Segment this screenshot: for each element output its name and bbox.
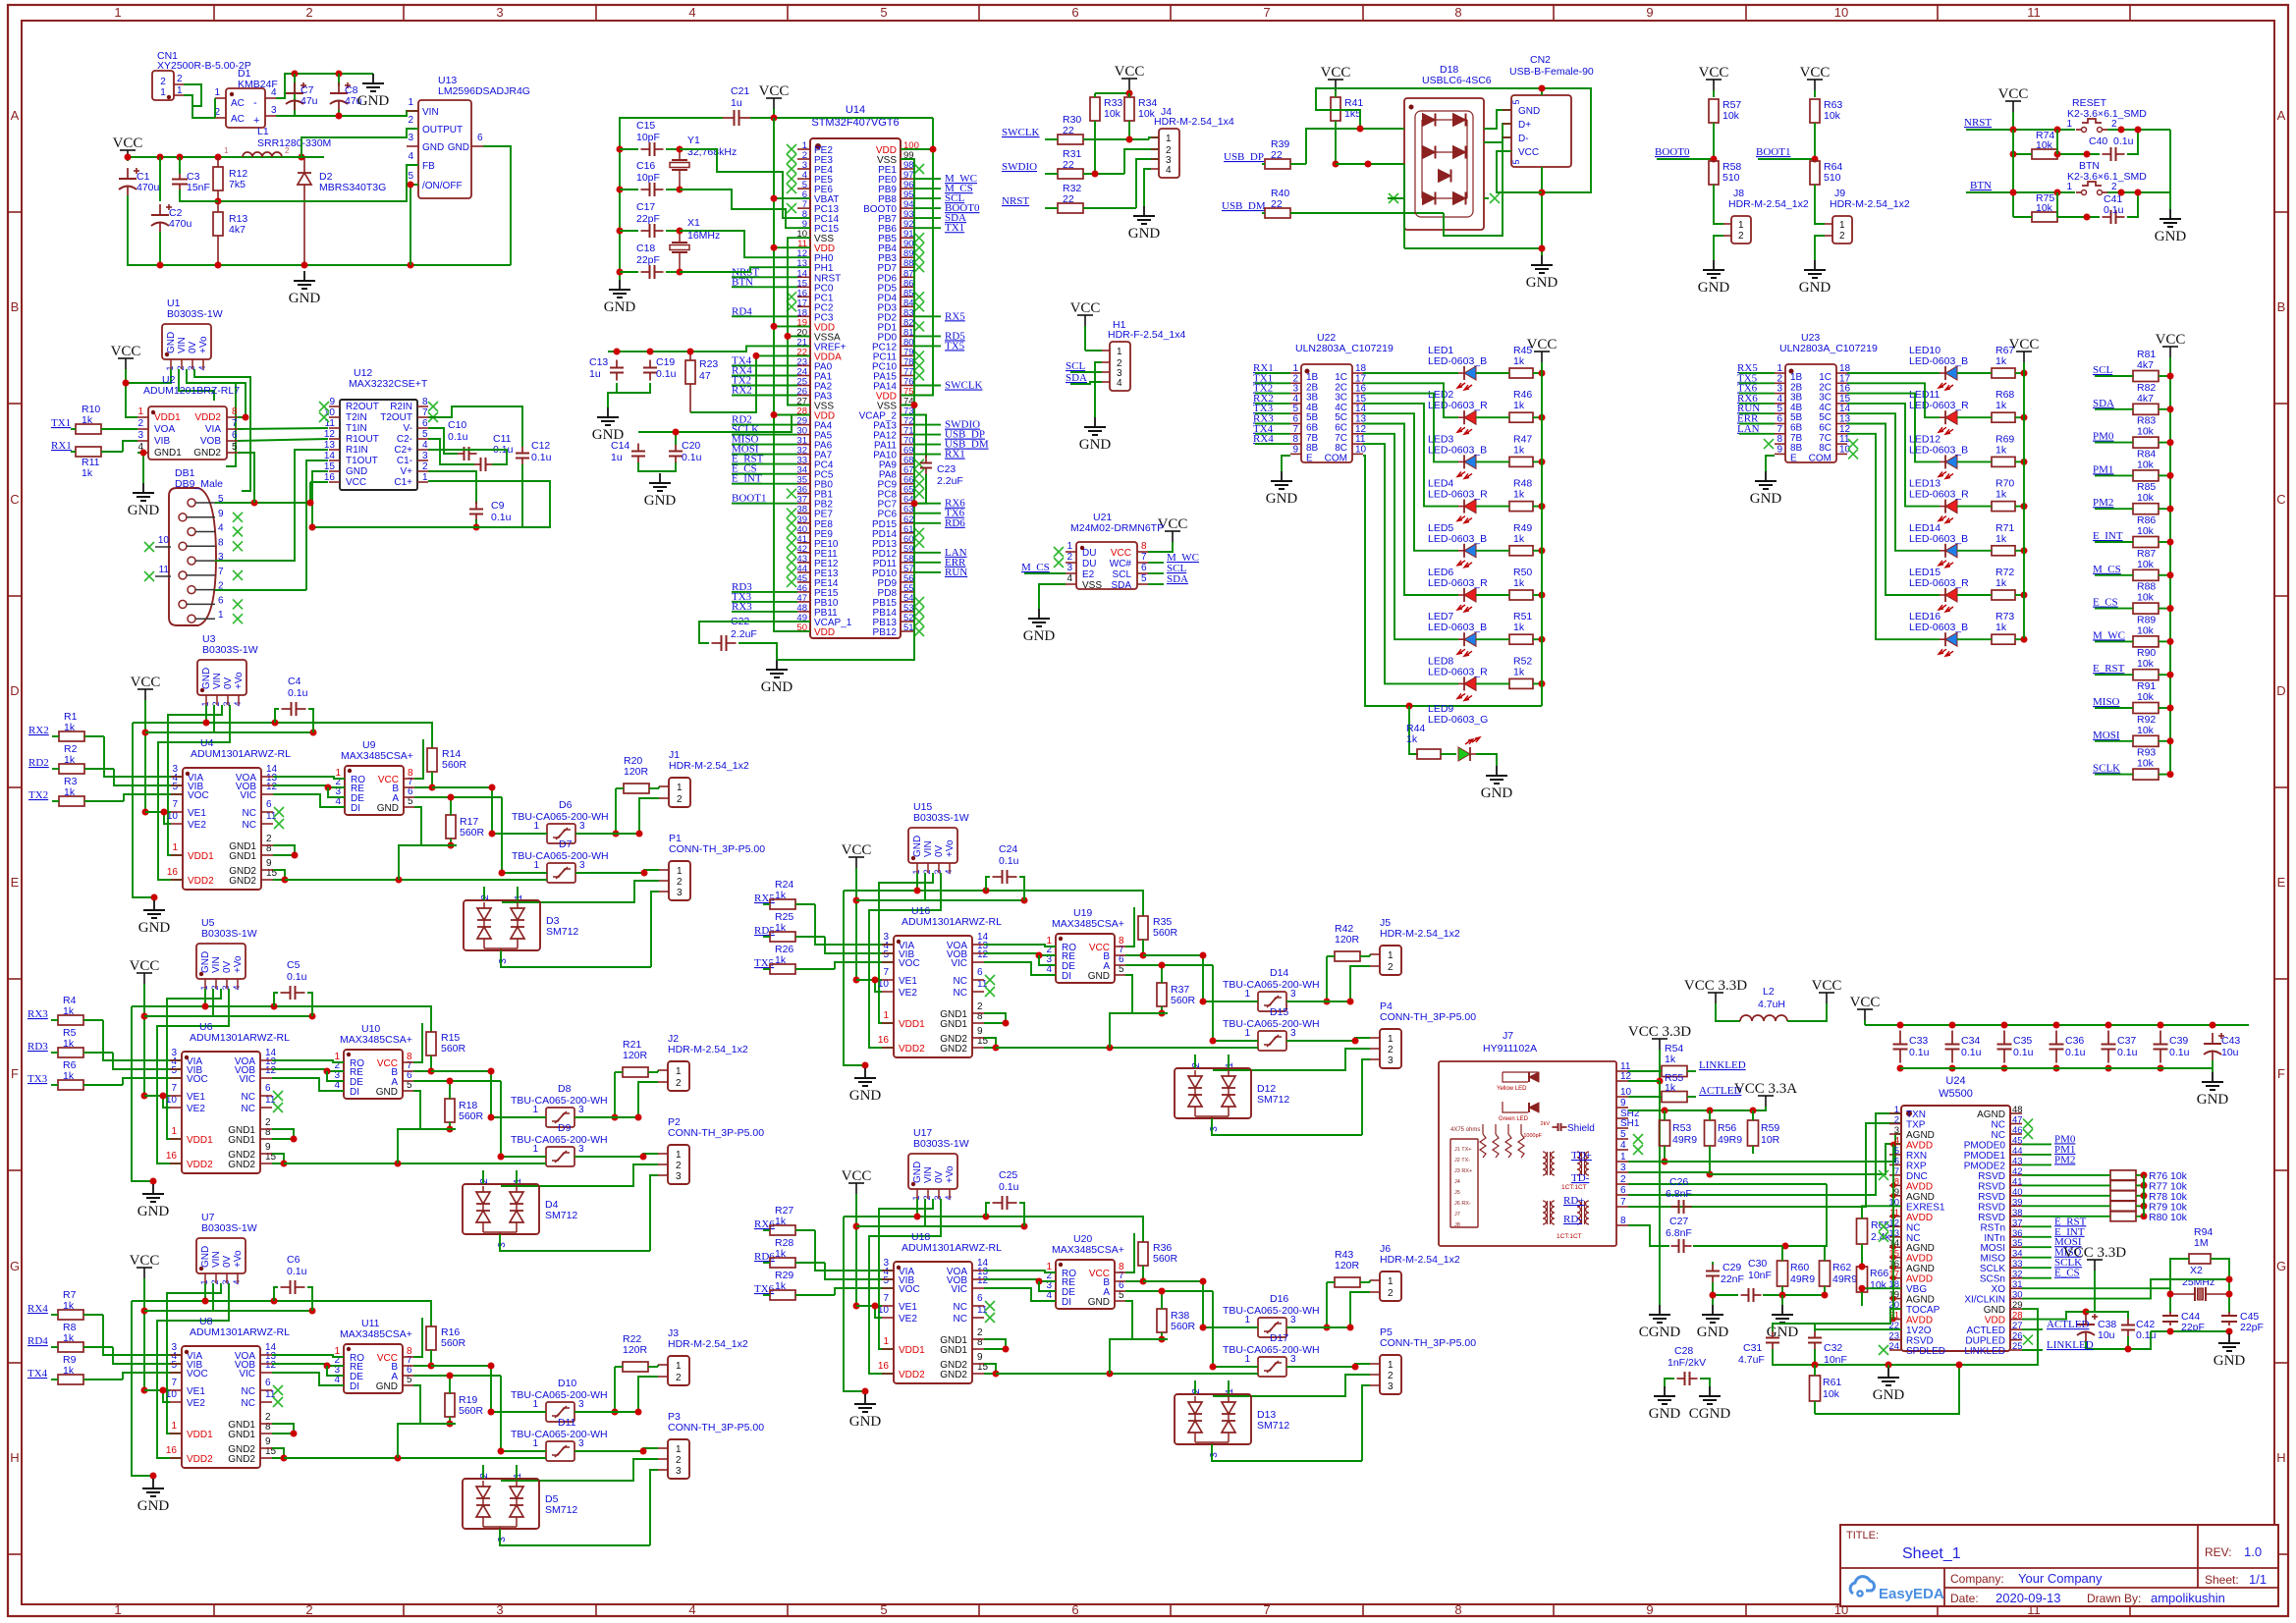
- svg-text:VCC: VCC: [1850, 995, 1881, 1010]
- wire: [1628, 1107, 1766, 1110]
- resistor R16: [426, 1326, 466, 1366]
- svg-text:1k: 1k: [82, 467, 93, 479]
- connector DB1: [169, 467, 223, 625]
- svg-text:39: 39: [2012, 1197, 2023, 1208]
- svg-text:ACTLED: ACTLED: [2047, 1319, 2089, 1330]
- svg-text:22: 22: [1271, 198, 1283, 210]
- svg-text:GND: GND: [604, 299, 636, 315]
- svg-text:B: B: [2277, 299, 2286, 314]
- junction: [1200, 952, 1207, 959]
- svg-text:22pF: 22pF: [2240, 1322, 2264, 1333]
- svg-text:GND: GND: [377, 803, 399, 814]
- svg-text:1: 1: [1388, 1276, 1394, 1287]
- svg-text:RSVD: RSVD: [1978, 1181, 2005, 1192]
- svg-text:USB_DP: USB_DP: [1224, 151, 1264, 163]
- svg-text:0.1u: 0.1u: [999, 855, 1019, 867]
- junction: [1021, 897, 1028, 904]
- junction: [1333, 161, 1339, 168]
- svg-text:GND: GND: [137, 1204, 170, 1219]
- junction: [161, 809, 168, 816]
- junction: [635, 1409, 642, 1416]
- power flag VCC: [2156, 332, 2186, 357]
- junction: [215, 262, 222, 269]
- svg-text:FB: FB: [422, 161, 435, 172]
- wire: [327, 1071, 344, 1081]
- connector J4: [1151, 106, 1234, 178]
- wire: [856, 1225, 1024, 1227]
- junction: [1707, 1108, 1714, 1114]
- svg-text:6: 6: [265, 1083, 271, 1094]
- svg-text:GND: GND: [376, 1087, 398, 1098]
- ground: [604, 280, 636, 315]
- svg-text:1k: 1k: [1406, 733, 1418, 745]
- svg-text:3: 3: [1388, 1055, 1394, 1066]
- wire: [128, 195, 511, 265]
- wire: [1739, 372, 1775, 374]
- svg-text:C35: C35: [2013, 1035, 2032, 1047]
- svg-text:4: 4: [271, 87, 277, 98]
- svg-text:GND: GND: [1088, 1297, 1110, 1308]
- wire: [276, 74, 295, 116]
- switch BTN: [2066, 160, 2147, 195]
- junction: [447, 1126, 454, 1133]
- junction: [785, 333, 792, 340]
- wire: [132, 1301, 153, 1476]
- svg-text:1k: 1k: [63, 1365, 75, 1377]
- no-connect: [1764, 439, 1774, 449]
- wire: [2056, 192, 2058, 217]
- wire: [143, 1278, 145, 1390]
- wire: [1255, 423, 1290, 425]
- wire: [2056, 130, 2058, 154]
- svg-text:MAX3232CSE+T: MAX3232CSE+T: [349, 378, 428, 390]
- switch RESET: [2066, 97, 2147, 133]
- wire: [1194, 1380, 1196, 1394]
- svg-text:VDD2: VDD2: [187, 1454, 213, 1465]
- wire: [615, 788, 617, 834]
- wire: [432, 787, 492, 834]
- svg-text:0.1u: 0.1u: [999, 1181, 1019, 1193]
- svg-text:Date:: Date:: [1950, 1592, 1979, 1605]
- svg-text:0.1u: 0.1u: [1909, 1047, 1930, 1058]
- wire: [501, 1450, 546, 1452]
- svg-text:SWCLK: SWCLK: [945, 380, 983, 392]
- svg-text:7: 7: [171, 1083, 177, 1094]
- svg-text:22pF: 22pF: [636, 254, 660, 266]
- svg-text:49R9: 49R9: [1718, 1134, 1742, 1146]
- wire: [1362, 1385, 1370, 1406]
- svg-text:12: 12: [977, 949, 989, 960]
- svg-text:T2IN: T2IN: [346, 412, 367, 423]
- svg-text:VE2: VE2: [899, 1314, 917, 1325]
- svg-text:TXP: TXP: [1906, 1120, 1926, 1131]
- wire: [660, 462, 676, 471]
- svg-text:VCC: VCC: [842, 842, 872, 858]
- svg-text:3: 3: [1290, 1028, 1296, 1039]
- wire: [1125, 964, 1213, 966]
- svg-text:12: 12: [265, 1360, 277, 1371]
- eeprom U21: [1066, 512, 1164, 591]
- svg-text:U14: U14: [846, 104, 865, 116]
- wire: [398, 1129, 456, 1163]
- wire: [1336, 163, 1404, 165]
- wire: [126, 369, 171, 383]
- capacitor C33: [1893, 1031, 1930, 1063]
- svg-text:C9: C9: [491, 500, 505, 512]
- wire: [844, 1217, 1143, 1242]
- junction: [429, 784, 436, 791]
- svg-text:V-: V-: [404, 423, 412, 434]
- svg-text:1: 1: [676, 1444, 682, 1455]
- svg-text:4k7: 4k7: [229, 224, 246, 236]
- svg-text:2: 2: [1388, 1288, 1394, 1299]
- resistor R90: [2095, 647, 2170, 680]
- junction: [408, 262, 414, 269]
- junction: [157, 262, 164, 269]
- svg-text:D6: D6: [559, 799, 573, 811]
- svg-text:H: H: [2276, 1450, 2285, 1465]
- resistor R53: [1660, 1110, 1698, 1162]
- wire: [1363, 372, 1458, 374]
- junction: [771, 323, 778, 330]
- junction: [993, 1045, 1000, 1052]
- svg-text:22nF: 22nF: [1721, 1273, 1744, 1285]
- svg-text:C16: C16: [636, 160, 655, 172]
- no-connect: [319, 402, 329, 411]
- wire: [195, 560, 215, 562]
- wire: [413, 1080, 501, 1082]
- svg-text:SWDIO: SWDIO: [1002, 161, 1037, 173]
- resistor R49: [1476, 522, 1542, 556]
- svg-text:1k: 1k: [775, 890, 787, 901]
- svg-text:2: 2: [1620, 1174, 1626, 1185]
- svg-text:10k: 10k: [2036, 202, 2053, 214]
- svg-text:T1OUT: T1OUT: [346, 456, 378, 466]
- wire: [295, 450, 328, 488]
- svg-text:25MHz: 25MHz: [2182, 1276, 2214, 1288]
- wire: [1966, 191, 2075, 193]
- wire: [272, 1448, 284, 1458]
- resistor R8: [51, 1322, 113, 1352]
- svg-text:27: 27: [2012, 1321, 2023, 1331]
- capacitor C30: [1741, 1258, 1772, 1302]
- svg-text:VDD1: VDD1: [899, 1345, 925, 1356]
- resistor R55: [1628, 1072, 1696, 1103]
- wire: [1203, 1001, 1258, 1002]
- junction: [872, 1303, 879, 1310]
- svg-text:1k: 1k: [1995, 400, 2007, 411]
- svg-text:VIA: VIA: [205, 424, 221, 435]
- resistor R13: [213, 201, 247, 265]
- capacitor C27: [1666, 1216, 1692, 1253]
- capacitor C8: [330, 82, 362, 110]
- svg-text:E: E: [1306, 453, 1313, 463]
- junction: [1107, 1045, 1114, 1052]
- svg-text:VDD1: VDD1: [187, 1430, 213, 1440]
- svg-text:VOC: VOC: [899, 958, 920, 969]
- resistor R9: [51, 1354, 123, 1384]
- svg-text:1k: 1k: [1513, 400, 1525, 411]
- wire: [1255, 403, 1290, 405]
- junction: [291, 1136, 298, 1143]
- svg-text:M_CS: M_CS: [1021, 562, 1050, 573]
- wire: [913, 562, 941, 564]
- wire: [913, 197, 941, 199]
- junction: [1890, 1317, 1896, 1323]
- junction: [396, 877, 403, 884]
- wire: [825, 937, 894, 953]
- svg-text:40: 40: [2012, 1187, 2023, 1198]
- wire: [1019, 1203, 1024, 1226]
- isolated dc-dc U3: [197, 660, 246, 695]
- pin 11 J7: [1616, 1061, 1631, 1072]
- wire: [1363, 444, 1458, 683]
- svg-text:3: 3: [496, 5, 503, 20]
- svg-text:37: 37: [2012, 1217, 2023, 1228]
- svg-text:D7: D7: [559, 839, 573, 850]
- power flag VCC: [842, 842, 872, 868]
- wire: [1255, 412, 1290, 414]
- wire: [650, 912, 652, 967]
- wire: [2170, 1259, 2189, 1313]
- svg-text:1k: 1k: [64, 754, 76, 766]
- svg-text:SPDLED: SPDLED: [1906, 1346, 1945, 1357]
- svg-text:47: 47: [699, 370, 711, 382]
- wire: [680, 231, 810, 257]
- svg-text:1k: 1k: [1665, 1054, 1676, 1065]
- pin SH1 J7: [1616, 1118, 1640, 1129]
- wire: [901, 415, 926, 459]
- svg-text:9: 9: [1646, 1602, 1653, 1617]
- svg-text:RD4: RD4: [27, 1335, 48, 1347]
- TVS-fuse D8: [511, 1083, 608, 1127]
- resistor R36: [1138, 1242, 1178, 1281]
- power flag VCC: [113, 135, 143, 161]
- pin SH2 J7: [1616, 1109, 1640, 1119]
- svg-text:VIC: VIC: [240, 790, 256, 801]
- wire: [124, 794, 183, 801]
- resistor R89: [2095, 614, 2170, 647]
- junction: [488, 1409, 495, 1416]
- wire: [1847, 394, 1940, 462]
- wire: [1476, 754, 1497, 766]
- svg-text:TBU-CA065-200-WH: TBU-CA065-200-WH: [511, 1389, 608, 1401]
- svg-text:GND: GND: [422, 142, 444, 153]
- resistor R44: [1406, 723, 1456, 759]
- svg-text:1: 1: [676, 1066, 682, 1077]
- junction: [448, 794, 455, 801]
- wire: [187, 574, 215, 576]
- junction: [1539, 592, 1546, 599]
- resistor R15: [426, 1032, 466, 1071]
- wire: [2107, 129, 2170, 131]
- wire: [1363, 404, 1458, 507]
- svg-text:C1+: C1+: [394, 477, 412, 488]
- svg-text:1k: 1k: [63, 1005, 75, 1017]
- svg-text:SCLK: SCLK: [1980, 1264, 2005, 1274]
- wire: [1144, 169, 1151, 206]
- junction: [2084, 151, 2091, 158]
- wire: [1814, 90, 1816, 97]
- power flag VCC: [842, 1168, 872, 1194]
- svg-text:AVDD: AVDD: [1906, 1254, 1933, 1265]
- wire: [284, 1457, 546, 1459]
- svg-text:PMODE0: PMODE0: [1964, 1140, 2006, 1151]
- svg-text:7: 7: [1263, 5, 1270, 20]
- svg-text:R60: R60: [1790, 1262, 1809, 1273]
- junction: [2135, 189, 2142, 196]
- junction: [612, 1114, 619, 1121]
- svg-text:J5: J5: [1454, 1190, 1460, 1196]
- junction: [1949, 1022, 1956, 1029]
- svg-text:SCL: SCL: [1066, 360, 1085, 372]
- svg-text:1: 1: [1244, 1028, 1250, 1039]
- driver U22: [1290, 332, 1394, 463]
- svg-text:1k: 1k: [1995, 533, 2007, 545]
- capacitor C32: [1808, 1330, 1847, 1367]
- svg-text:GND: GND: [1984, 1305, 2005, 1316]
- resistor R17: [446, 797, 485, 845]
- svg-text:VCC: VCC: [111, 344, 141, 359]
- junction: [489, 831, 496, 838]
- junction: [125, 154, 132, 161]
- svg-text:10k: 10k: [2036, 139, 2053, 151]
- wire: [1039, 584, 1066, 609]
- junction: [687, 349, 694, 355]
- wire: [1864, 1020, 1866, 1025]
- svg-text:VDD2: VDD2: [899, 1370, 925, 1380]
- wire: [2211, 1259, 2229, 1313]
- resistor R80: [2022, 1212, 2188, 1223]
- svg-text:51: 51: [903, 622, 914, 633]
- no-connect: [985, 975, 995, 985]
- svg-text:47: 47: [2012, 1115, 2023, 1126]
- svg-text:GND: GND: [201, 668, 212, 689]
- svg-text:K2-3.6×6.1_SMD: K2-3.6×6.1_SMD: [2067, 108, 2147, 120]
- pin 10 DB1: [144, 535, 171, 552]
- svg-text:1: 1: [1738, 220, 1744, 231]
- svg-text:SM712: SM712: [546, 926, 578, 938]
- wire: [123, 1373, 182, 1380]
- svg-text:0.1u: 0.1u: [656, 368, 677, 380]
- wire: [638, 415, 792, 433]
- wire: [152, 1181, 154, 1184]
- wire: [482, 1170, 484, 1184]
- connector J2: [658, 1033, 748, 1091]
- junction: [142, 809, 149, 816]
- LED LED9: [1428, 703, 1488, 761]
- svg-text:41: 41: [2012, 1176, 2023, 1187]
- wire: [187, 545, 215, 547]
- transceiver U11: [333, 1318, 413, 1393]
- svg-text:22: 22: [1063, 159, 1074, 171]
- wire: [428, 471, 476, 504]
- svg-text:DU: DU: [1082, 559, 1096, 569]
- svg-text:HY911102A: HY911102A: [1483, 1043, 1537, 1055]
- svg-text:VE2: VE2: [899, 988, 917, 999]
- resistor R83: [2095, 415, 2170, 449]
- svg-text:43: 43: [2012, 1156, 2023, 1166]
- svg-text:1: 1: [1839, 220, 1845, 231]
- svg-text:NC: NC: [954, 1314, 967, 1325]
- wire: [1039, 955, 1056, 965]
- wire: [2212, 1068, 2214, 1072]
- capacitor C45: [2221, 1311, 2264, 1333]
- svg-text:1k: 1k: [64, 786, 76, 798]
- svg-text:10pF: 10pF: [636, 172, 660, 184]
- junction: [2167, 406, 2174, 412]
- svg-text:VE2: VE2: [187, 1104, 205, 1114]
- no-connect: [233, 513, 243, 522]
- wire: [1125, 907, 1134, 947]
- wire: [855, 1194, 857, 1306]
- svg-text:1: 1: [1225, 1062, 1235, 1068]
- svg-text:9: 9: [1777, 444, 1782, 455]
- wire: [1125, 1233, 1134, 1272]
- wire: [2212, 1060, 2214, 1068]
- isolated dc-dc U15: [908, 828, 957, 863]
- svg-text:6: 6: [977, 1293, 983, 1304]
- wire: [2127, 1336, 2129, 1349]
- svg-text:R53: R53: [1672, 1122, 1691, 1134]
- title block: [1840, 1525, 2278, 1606]
- isolator U4: [167, 737, 291, 890]
- svg-text:1.0: 1.0: [2244, 1544, 2262, 1559]
- junction: [2226, 1328, 2233, 1335]
- pin 5 J7: [1616, 1129, 1628, 1140]
- wire: [924, 1199, 926, 1226]
- svg-text:1CT:1CT: 1CT:1CT: [1557, 1233, 1582, 1240]
- svg-text:9: 9: [1646, 5, 1653, 20]
- junction: [2021, 370, 2028, 377]
- resistor R22: [615, 1333, 658, 1372]
- wire: [2022, 1236, 2051, 1238]
- wire: [272, 1364, 344, 1366]
- svg-text:LED-0603_B: LED-0603_B: [1428, 533, 1487, 545]
- wire: [2022, 1328, 2043, 1330]
- power flag VCC: [1812, 978, 1842, 1003]
- svg-text:CONN-TH_3P-P5.00: CONN-TH_3P-P5.00: [668, 1422, 764, 1434]
- junction: [853, 897, 860, 904]
- svg-text:2: 2: [480, 894, 491, 900]
- wire: [732, 483, 797, 485]
- wire: [1212, 1444, 1362, 1461]
- junction: [2167, 571, 2174, 578]
- svg-text:TX4: TX4: [27, 1368, 48, 1380]
- wire: [875, 1306, 882, 1318]
- junction: [202, 1298, 209, 1305]
- wire: [1847, 404, 1940, 507]
- wire: [1255, 382, 1290, 384]
- wire: [1739, 433, 1775, 435]
- svg-text:J8: J8: [1454, 1222, 1460, 1228]
- svg-text:6: 6: [218, 595, 224, 606]
- wire: [137, 453, 143, 483]
- svg-text:J6 RX-: J6 RX-: [1454, 1201, 1471, 1207]
- ground: [2214, 1333, 2246, 1369]
- svg-text:GND: GND: [128, 503, 160, 518]
- svg-text:2: 2: [677, 877, 683, 888]
- svg-text:GND: GND: [2155, 229, 2187, 244]
- svg-text:ADUM1201BRZ-RL7: ADUM1201BRZ-RL7: [143, 385, 240, 397]
- svg-text:6: 6: [232, 430, 238, 441]
- capacitor C12: [516, 440, 552, 466]
- svg-text:VIC: VIC: [239, 1074, 255, 1085]
- wire: [1363, 413, 1458, 551]
- wire: [608, 346, 810, 352]
- junction: [301, 262, 308, 269]
- svg-text:6: 6: [266, 799, 272, 810]
